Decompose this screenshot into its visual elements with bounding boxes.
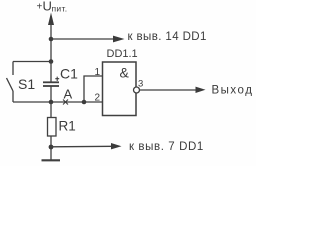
wire top-left <box>13 61 51 63</box>
svg-text:к выв. 7 DD1: к выв. 7 DD1 <box>129 141 204 153</box>
wire main vertical <box>50 23 52 62</box>
resistor R1 <box>48 102 76 147</box>
svg-text:пит.: пит. <box>52 4 68 14</box>
node junction top <box>49 37 54 42</box>
logic gate DD1.1 box <box>103 62 137 116</box>
ground <box>42 147 61 160</box>
svg-text:C1: C1 <box>60 66 78 82</box>
power label +Upit <box>37 0 68 14</box>
wire to pin 7 <box>51 145 113 148</box>
output wire <box>140 89 199 91</box>
node A marker <box>63 87 73 105</box>
node junction cap top <box>49 59 54 64</box>
power arrow up <box>48 13 54 26</box>
svg-text:R1: R1 <box>59 119 76 134</box>
svg-text:к выв. 14 DD1: к выв. 14 DD1 <box>128 31 207 43</box>
node junction cap bottom <box>49 100 54 105</box>
node A wire <box>13 101 103 103</box>
svg-text:1: 1 <box>95 67 101 78</box>
svg-text:A: A <box>64 87 73 102</box>
svg-text:U: U <box>43 0 52 14</box>
svg-text:Выход: Выход <box>212 85 254 97</box>
svg-text:&: & <box>120 65 130 81</box>
node junction bottom <box>49 145 54 150</box>
svg-text:3: 3 <box>138 79 143 90</box>
switch S1 <box>7 62 36 103</box>
wire to pin 14 <box>51 38 114 40</box>
svg-text:DD1.1: DD1.1 <box>107 48 138 60</box>
capacitor C1 <box>43 62 78 103</box>
wire pin1 branch <box>84 76 103 102</box>
svg-text:2: 2 <box>95 93 101 104</box>
node junction pin1 branch <box>82 100 87 105</box>
svg-text:S1: S1 <box>18 76 35 92</box>
gate output bubble <box>134 87 140 93</box>
